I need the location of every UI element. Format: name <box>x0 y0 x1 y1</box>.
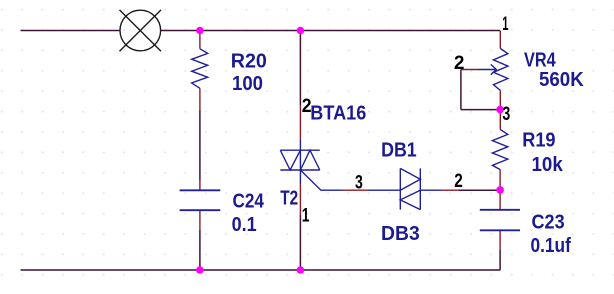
wire: wiper loop bottom horizontal <box>461 109 500 111</box>
svg-text:R19: R19 <box>522 130 555 152</box>
pin lead: VR4 pin1 <box>499 31 501 49</box>
wire: triac bottom column to bottom rail <box>299 215 301 270</box>
svg-text:VR4: VR4 <box>524 48 556 71</box>
junction at triac top <box>297 27 305 35</box>
wire: top rail right segment <box>161 30 500 32</box>
wire: gate red segment <box>343 189 369 191</box>
svg-text:C24: C24 <box>233 189 265 212</box>
svg-text:100: 100 <box>232 73 263 95</box>
svg-text:560K: 560K <box>539 69 584 92</box>
svg-text:2: 2 <box>454 53 465 74</box>
svg-text:T2: T2 <box>280 187 298 209</box>
svg-text:0.1uf: 0.1uf <box>531 234 572 256</box>
svg-text:1: 1 <box>502 14 508 35</box>
junction at R20 top <box>196 27 204 35</box>
VR4 wiper arrow <box>479 69 497 71</box>
svg-text:BTA16: BTA16 <box>310 103 366 125</box>
junction at VR4 pin3 <box>496 106 504 114</box>
wire: C23 bottom lead lower part <box>499 250 501 270</box>
svg-text:3: 3 <box>355 172 363 194</box>
wire: C24 bottom to bottom rail <box>199 230 201 270</box>
wire: wiper horizontal red <box>461 69 479 71</box>
wire: diac output to right junction <box>459 189 500 191</box>
pin lead: triac pin2 <box>299 105 301 140</box>
junction at diac/R19/C23 <box>496 186 504 194</box>
svg-text:1: 1 <box>302 204 310 226</box>
pin lead: R19 bottom to C23 top <box>499 170 501 210</box>
svg-text:2: 2 <box>454 170 463 192</box>
resistor R19 <box>492 129 507 169</box>
pin lead: VR4 pin3 to R19 top <box>499 91 501 130</box>
svg-text:DB1: DB1 <box>381 140 417 162</box>
potentiometer VR4 <box>479 49 508 91</box>
svg-text:10k: 10k <box>532 153 563 176</box>
svg-text:2: 2 <box>302 95 312 117</box>
junction at C24 bottom <box>196 266 204 274</box>
svg-text:C23: C23 <box>532 212 565 234</box>
wire: diac right red segment <box>441 189 459 191</box>
wire: triac top column <box>299 31 301 106</box>
svg-text:3: 3 <box>502 103 510 124</box>
capacitor C24 <box>180 190 221 210</box>
wire: bottom rail <box>21 269 501 271</box>
wire: top rail left segment <box>21 30 121 32</box>
capacitor C23 <box>480 210 520 231</box>
triac T2 <box>280 140 342 190</box>
pin lead: C24 top <box>199 181 201 191</box>
pin lead: R20 bottom <box>199 88 201 110</box>
junction at triac bottom <box>297 266 305 274</box>
wire: wiper loop vertical <box>460 70 462 110</box>
wire: R20 column between R20 and C24 <box>199 110 201 181</box>
resistor R20 <box>192 49 208 89</box>
pin lead: C24 bottom <box>199 211 201 231</box>
svg-text:0.1: 0.1 <box>232 214 257 236</box>
lamp (circle with X) <box>120 10 162 51</box>
pin lead: C23 bottom <box>499 230 501 250</box>
svg-text:R20: R20 <box>231 50 267 72</box>
pin lead: triac pin1 <box>299 184 301 215</box>
diac DB1/DB3 <box>368 168 441 209</box>
pin lead: R20 top <box>199 31 201 49</box>
svg-text:DB3: DB3 <box>381 223 420 245</box>
